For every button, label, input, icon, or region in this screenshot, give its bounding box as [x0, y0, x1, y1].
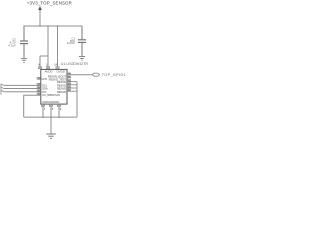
- svg-text:U1 LIS2DW12TR: U1 LIS2DW12TR: [61, 62, 89, 66]
- pin numbers left: [38, 77, 41, 97]
- wire AVDD drop: [40, 26, 48, 69]
- right pins RESVD stubs: [67, 82, 77, 92]
- wire DVDD drop: [57, 26, 59, 69]
- C2 value labels: [8, 38, 16, 48]
- wire GPIO: [67, 74, 92, 76]
- junction dots bottom net: [42, 116, 60, 118]
- svg-text:100nF: 100nF: [67, 41, 75, 45]
- ground C1: [79, 57, 85, 61]
- pin numbers right: [68, 72, 71, 93]
- wire RESVD tie: [76, 82, 78, 118]
- capacitor C1: [78, 26, 86, 56]
- ground main: [46, 134, 55, 138]
- pin boxes left: [37, 77, 40, 95]
- bottom pin GND2: [50, 104, 52, 117]
- wire +3V3 rail: [24, 25, 83, 27]
- wire SCL: [4, 84, 41, 86]
- wire ground drop: [50, 117, 52, 134]
- svg-text:AVDD: AVDD: [45, 69, 54, 73]
- pin numbers bottom: [44, 107, 62, 111]
- svg-text:4.7uF: 4.7uF: [8, 44, 16, 48]
- junction dots rail: [39, 25, 58, 27]
- net flag TOP_GPIO1: [92, 73, 99, 76]
- svg-text:TOP_GPIO1: TOP_GPIO1: [102, 73, 126, 77]
- wire power stem: [39, 10, 41, 26]
- pin names left column: [42, 77, 60, 97]
- svg-text:+3V3_TOP_SENSOR: +3V3_TOP_SENSOR: [27, 1, 72, 6]
- wire bottom ground net: [24, 116, 77, 118]
- capacitor C2: [20, 26, 28, 58]
- svg-text:GNDGNDPAD: GNDGNDPAD: [42, 100, 59, 104]
- left bus: [1, 84, 4, 95]
- svg-text:14: 14: [54, 63, 57, 67]
- ground C2: [21, 59, 27, 63]
- svg-text:UC_RBMOVIN: UC_RBMOVIN: [42, 93, 60, 97]
- wire INT: [4, 91, 41, 93]
- pin names right column RESVD: [48, 75, 67, 94]
- pin boxes top: [38, 67, 59, 69]
- wire CS loop to ground net: [24, 95, 41, 117]
- pin boxes bottom: [41, 105, 61, 107]
- svg-text:DVDD: DVDD: [57, 69, 66, 73]
- bottom pin GND1: [42, 104, 44, 117]
- svg-text:LPN: LPN: [42, 77, 47, 81]
- wire SDA: [4, 88, 41, 90]
- pin boxes right: [67, 73, 70, 91]
- C1 value labels: [67, 37, 76, 46]
- pin numbers top: [38, 63, 57, 67]
- IC U1 body: [41, 69, 67, 104]
- bottom pin PAD: [58, 104, 60, 117]
- power arrow: [38, 6, 41, 10]
